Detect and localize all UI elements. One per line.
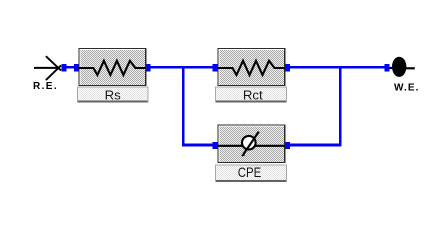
junction CPE pin 2 bbox=[285, 142, 290, 149]
CPE element label box bbox=[215, 164, 287, 182]
wire right branch vertical bbox=[339, 66, 342, 146]
wire Rct to W.E. bbox=[288, 66, 387, 69]
wire Rs to Rct bbox=[148, 66, 214, 69]
wire CPE to right branch bbox=[288, 144, 341, 147]
resistor Rct symbol bbox=[218, 61, 286, 75]
resistor Rct box bbox=[217, 48, 285, 86]
svg-text:CPE: CPE bbox=[238, 165, 262, 180]
junction Rs pin 1 bbox=[74, 64, 79, 71]
terminal W.E. electrode dot bbox=[389, 57, 415, 77]
svg-text:R.E.: R.E. bbox=[33, 81, 58, 92]
resistor Rs label box bbox=[77, 87, 148, 103]
junction Rct pin 2 bbox=[285, 64, 290, 71]
wire R.E. to Rs bbox=[62, 66, 78, 69]
resistor Rs box bbox=[78, 48, 146, 86]
CPE element box bbox=[217, 125, 285, 164]
wire left branch vertical bbox=[182, 66, 185, 146]
resistor Rct label box bbox=[215, 87, 287, 103]
junction Rct pin 1 bbox=[212, 64, 217, 71]
junction Rs pin 2 bbox=[146, 64, 151, 71]
svg-text:Rs: Rs bbox=[105, 88, 122, 103]
wire branch to CPE bbox=[182, 144, 215, 147]
junction at W.E. bbox=[385, 64, 390, 71]
terminal R.E. arrow bbox=[34, 56, 61, 80]
resistor Rs symbol bbox=[78, 61, 145, 75]
junction CPE pin 1 bbox=[212, 142, 217, 149]
junction at R.E. bbox=[62, 64, 67, 71]
svg-text:W.E.: W.E. bbox=[394, 83, 420, 94]
svg-text:Rct: Rct bbox=[243, 88, 263, 103]
CPE element symbol bbox=[218, 132, 286, 156]
